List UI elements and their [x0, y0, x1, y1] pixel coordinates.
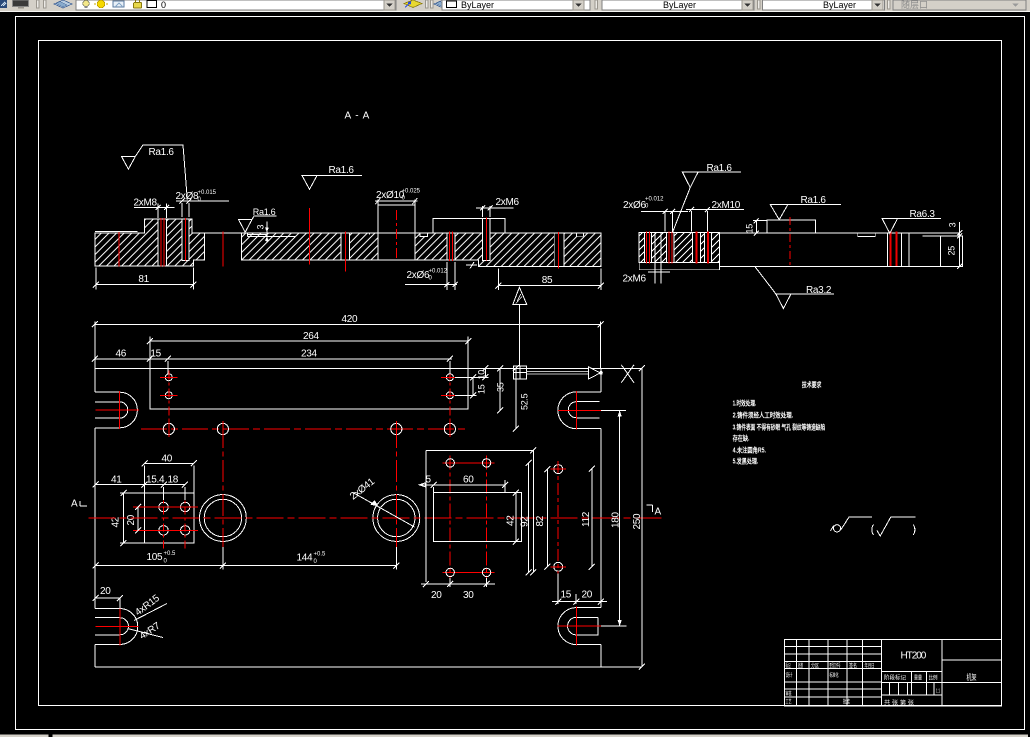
svg-text:52.5: 52.5	[520, 393, 530, 410]
boss centerline	[789, 217, 791, 266]
hole band M6	[483, 219, 491, 261]
big bore band O41 left	[205, 234, 242, 261]
white holes right	[554, 465, 563, 474]
svg-text:10: 10	[477, 370, 487, 380]
bottom gray strip	[0, 734, 1028, 737]
svg-text:18: 18	[168, 474, 179, 485]
svg-text:Ra1.6: Ra1.6	[329, 165, 355, 176]
svg-text:105: 105	[147, 552, 164, 563]
bottom chain 15 20 right	[552, 574, 607, 605]
svg-text:15: 15	[745, 224, 755, 234]
centerline red boss2	[395, 210, 397, 258]
svg-text:46: 46	[116, 349, 127, 360]
svg-text:分区: 分区	[811, 662, 819, 670]
surface mark Ra1.6 no3	[239, 216, 277, 232]
svg-text:5.发黑处理.: 5.发黑处理.	[733, 457, 759, 466]
roughness mark in parens	[877, 517, 916, 536]
dim 5 60	[419, 480, 505, 493]
main bar body	[720, 233, 963, 266]
dim 20 left	[137, 507, 139, 530]
top lip line left	[95, 230, 138, 232]
svg-text:A: A	[655, 507, 662, 518]
dim 15 vertical	[455, 377, 489, 395]
right section lines	[942, 660, 1002, 682]
open arrowhead right	[589, 367, 601, 379]
dim 3 right	[957, 222, 962, 267]
svg-text:2xM6: 2xM6	[496, 197, 520, 208]
section body (hatched bar)	[95, 219, 601, 267]
notch in bar top	[858, 233, 876, 237]
svg-text:2.铸件须经人工时效处理.: 2.铸件须经人工时效处理.	[733, 411, 794, 420]
icon: monitor/preview	[11, 0, 30, 8]
svg-text:工艺: 工艺	[786, 699, 792, 706]
red lines cluster	[133, 507, 198, 530]
dropdown button	[384, 0, 395, 10]
svg-text:20: 20	[582, 590, 593, 601]
svg-text:250: 250	[632, 513, 643, 530]
svg-text:A-A: A-A	[345, 111, 370, 122]
surface mark Ra1.6 left	[672, 172, 741, 232]
svg-text:阶段标记: 阶段标记	[884, 674, 906, 682]
toolbar grips	[37, 0, 40, 8]
svg-text:Ra1.6: Ra1.6	[707, 163, 733, 174]
slot bottom-left	[95, 609, 138, 645]
notch 2 in top edge	[577, 233, 584, 236]
svg-text:420: 420	[342, 314, 359, 325]
dim 105	[96, 565, 223, 567]
svg-text:15: 15	[561, 590, 572, 601]
part outline right edge segments	[600, 368, 602, 667]
plot style dropdown (disabled)	[893, 0, 1026, 10]
svg-text:2xØ6: 2xØ6	[623, 200, 646, 211]
svg-text:81: 81	[138, 274, 149, 285]
part outline bottom edge	[95, 666, 642, 668]
svg-text:年月日: 年月日	[865, 662, 875, 670]
svg-text:2xØ6: 2xØ6	[407, 270, 430, 281]
svg-text:+0.012: +0.012	[645, 197, 664, 203]
right hole band	[887, 233, 901, 266]
svg-text:审核: 审核	[786, 690, 792, 698]
dim 250	[641, 368, 643, 667]
svg-text:签名: 签名	[849, 662, 857, 670]
separator	[595, 0, 598, 9]
svg-text:ByLayer: ByLayer	[823, 0, 856, 10]
left cluster box	[145, 493, 195, 543]
svg-text:批准: 批准	[843, 698, 850, 706]
centerline red left	[118, 232, 120, 267]
notch 1 in top edge	[420, 233, 427, 237]
icon: make layer current	[404, 0, 422, 8]
svg-text:更改文件号: 更改文件号	[830, 662, 841, 670]
layer dropdown field	[76, 0, 396, 10]
surface mark Ra1.6 boss	[770, 205, 841, 220]
svg-text:技术要求: 技术要求	[802, 380, 822, 389]
hole band M8 no1	[158, 219, 167, 266]
top hole row1 holes	[165, 374, 172, 381]
svg-text:30: 30	[463, 590, 474, 601]
svg-text:Ra6.3: Ra6.3	[910, 209, 936, 220]
dimension 81	[96, 268, 193, 290]
big circle right	[373, 495, 420, 542]
slot top-right	[558, 392, 601, 429]
dim 42 left	[120, 493, 145, 543]
dim 92	[528, 463, 530, 573]
svg-text:1.时效处理.: 1.时效处理.	[733, 398, 757, 407]
sun/rect icon	[113, 1, 124, 7]
svg-text:随层口: 随层口	[901, 0, 928, 10]
dim 420	[95, 322, 601, 369]
surface mark Ra1.6 no2	[302, 175, 362, 189]
inner rect boss	[433, 493, 521, 542]
svg-text:144: 144	[297, 553, 314, 564]
part outline left edge segments	[94, 368, 96, 667]
label 4xR7	[128, 629, 164, 638]
left cluster holes	[159, 502, 168, 511]
hole band mid	[341, 233, 350, 260]
right cluster white frame lines	[426, 450, 533, 582]
svg-text:存在缺.: 存在缺.	[733, 433, 750, 442]
svg-text:重量: 重量	[914, 674, 922, 682]
chain dims 46 15 234	[95, 359, 452, 374]
svg-text:20: 20	[431, 590, 442, 601]
svg-text:82: 82	[535, 515, 546, 526]
svg-text:标准化: 标准化	[830, 671, 839, 679]
svg-text:85: 85	[542, 275, 553, 286]
svg-text:15: 15	[477, 384, 487, 394]
big circle left	[200, 495, 247, 542]
svg-text:标记: 标记	[786, 662, 791, 670]
svg-text:41: 41	[111, 474, 122, 485]
svg-text:3.铸件表面 不得有砂眼 气孔 裂纹等铸造缺陷: 3.铸件表面 不得有砂眼 气孔 裂纹等铸造缺陷	[733, 423, 826, 432]
svg-text:1:1: 1:1	[936, 689, 940, 695]
svg-text:92: 92	[520, 516, 531, 527]
padlock icon	[134, 3, 142, 9]
svg-text:42: 42	[506, 515, 517, 526]
icon: layers2	[434, 0, 452, 8]
dim 82	[546, 469, 548, 567]
leader double line to arrow	[527, 371, 589, 374]
color swatch	[147, 1, 157, 8]
M6 extension lines below block	[655, 233, 661, 284]
bottom chain 20 30	[421, 578, 495, 587]
part outline top edge	[95, 367, 642, 369]
boss on bar	[767, 220, 816, 233]
hole band M8 no2	[182, 219, 189, 261]
dim 35 vertical	[499, 368, 501, 410]
hole slots in left block	[645, 233, 652, 263]
svg-text:5: 5	[426, 475, 432, 486]
X mark	[621, 365, 634, 383]
svg-text:35: 35	[496, 382, 506, 392]
svg-text:+0.015: +0.015	[198, 190, 217, 196]
boss 2xO10	[378, 205, 415, 233]
icon: layers diamond	[54, 0, 72, 8]
label 2xO41	[353, 492, 415, 527]
svg-text:15.4: 15.4	[146, 474, 165, 485]
svg-text:Ra3.2: Ra3.2	[806, 285, 832, 296]
dim 144	[223, 547, 396, 570]
section direction arrow up	[513, 287, 527, 304]
svg-text:+0.5: +0.5	[314, 552, 327, 558]
dim 180	[619, 410, 621, 626]
svg-text:ByLayer: ByLayer	[663, 0, 696, 10]
dims 15.4 18	[145, 485, 185, 500]
color control dropdown	[442, 0, 590, 10]
red verticals big circles	[223, 426, 396, 547]
left hatched block	[639, 233, 719, 263]
svg-text:ByLayer: ByLayer	[461, 0, 494, 10]
big bore band O41 under boss2	[378, 234, 414, 260]
svg-text:设计: 设计	[786, 671, 793, 679]
main row centerline	[141, 428, 466, 430]
svg-text:20: 20	[126, 514, 137, 525]
svg-text:264: 264	[303, 331, 320, 342]
dim 15 boss	[753, 220, 767, 233]
slot bottom-right	[558, 608, 601, 645]
svg-text:Ra1.6: Ra1.6	[801, 195, 827, 206]
dimension 85	[498, 269, 601, 291]
svg-text:20: 20	[100, 586, 111, 597]
main row holes	[163, 423, 174, 434]
dim 40	[145, 463, 194, 493]
svg-text:3: 3	[948, 222, 958, 227]
dim 20 bottom-left	[96, 598, 120, 609]
boss outline rect upper	[150, 368, 468, 409]
svg-text:+0.012: +0.012	[429, 269, 448, 275]
lineweight dropdown	[763, 0, 885, 10]
recess lines mid	[248, 233, 370, 236]
svg-text:112: 112	[581, 511, 592, 527]
slot top-left	[95, 392, 138, 428]
left block foot band	[639, 262, 719, 269]
left grid horizontals	[785, 647, 882, 697]
left grid verticals	[797, 639, 882, 706]
linetype dropdown	[602, 0, 754, 10]
right cluster red rect	[450, 456, 486, 581]
dim 112	[591, 469, 593, 567]
svg-text:共 张 第 张: 共 张 第 张	[884, 699, 915, 707]
svg-text:2xØ10: 2xØ10	[376, 190, 405, 201]
roughness mark with circle	[833, 525, 840, 532]
top hole row2 holes	[165, 392, 172, 399]
svg-text:40: 40	[162, 453, 173, 464]
svg-text:HT200: HT200	[901, 651, 927, 662]
svg-text:机架: 机架	[967, 672, 977, 682]
boss 2xM6	[433, 219, 505, 233]
svg-text:Ra1.6: Ra1.6	[253, 207, 276, 217]
svg-text:60: 60	[463, 475, 474, 486]
title block outer frame	[785, 639, 1002, 706]
svg-text:3: 3	[256, 225, 266, 230]
dim 41	[96, 484, 145, 486]
hole band 2xO6	[447, 233, 455, 260]
svg-text:180: 180	[611, 511, 622, 528]
red crosses top holes	[160, 377, 459, 395]
svg-text:234: 234	[301, 349, 318, 360]
dim 10 vertical	[484, 368, 486, 377]
dim 42 inner	[515, 493, 517, 542]
grips	[426, 0, 429, 8]
dim 264	[150, 337, 468, 369]
bulb icon	[83, 0, 89, 6]
svg-text:0: 0	[161, 0, 166, 10]
svg-text:A: A	[71, 499, 78, 510]
svg-text:15: 15	[150, 349, 161, 360]
svg-text:2xM6: 2xM6	[623, 274, 647, 285]
mini step dim	[466, 262, 477, 269]
dim 52.5 vertical	[515, 368, 517, 429]
surface mark Ra3.2	[755, 266, 834, 308]
svg-text:+0.5: +0.5	[164, 551, 177, 557]
centerline red mid tall	[309, 208, 311, 265]
toolbar strip	[0, 0, 1030, 12]
svg-text:4.未注圆角R5.: 4.未注圆角R5.	[733, 446, 766, 455]
surface mark Ra1.6 no1	[122, 145, 188, 200]
svg-text:比例: 比例	[929, 674, 938, 682]
surface mark Ra6.3	[882, 219, 941, 234]
hole band O10 pin	[554, 233, 564, 267]
depth dim 3	[266, 221, 268, 242]
label 4xR15	[134, 604, 167, 621]
datum square symbol	[513, 366, 526, 379]
dim 25 right	[957, 264, 962, 269]
separator	[888, 0, 891, 9]
svg-text:25: 25	[947, 246, 957, 256]
svg-text:+0.025: +0.025	[402, 189, 421, 195]
right cluster holes	[446, 459, 454, 467]
section label A right	[647, 505, 653, 512]
svg-text:Ra1.6: Ra1.6	[149, 147, 175, 158]
main horizontal centerline	[89, 517, 662, 519]
icon: partial blue tool at far left	[0, 0, 7, 8]
svg-text:处数: 处数	[798, 662, 803, 670]
middle section lines	[882, 639, 942, 706]
sun icon	[97, 0, 105, 8]
separator	[758, 0, 761, 9]
